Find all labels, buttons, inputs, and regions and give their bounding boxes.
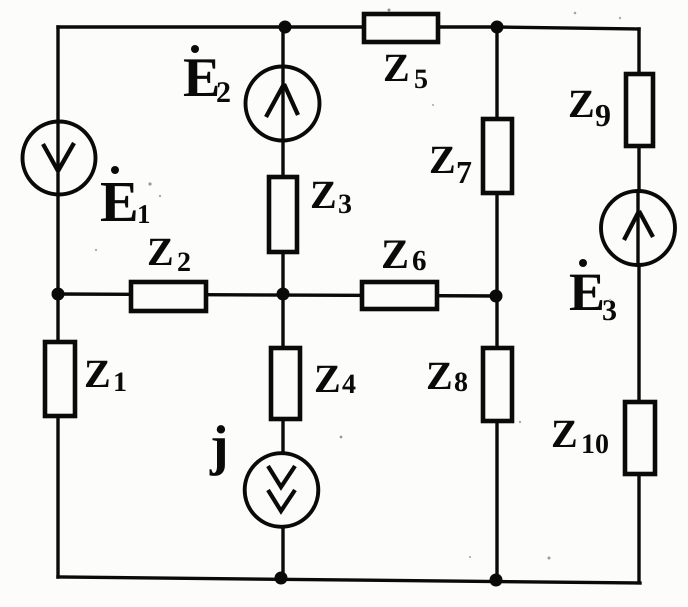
wire middle vertical	[281, 27, 284, 578]
label Z9	[568, 81, 611, 133]
svg-text:Z: Z	[383, 45, 410, 90]
svg-text:2: 2	[216, 76, 231, 109]
svg-text:7: 7	[456, 154, 472, 190]
node top-middle	[279, 21, 292, 34]
label E3	[569, 259, 617, 327]
wire right-middle vertical	[495, 27, 498, 580]
svg-text:1: 1	[113, 367, 127, 398]
node bottom-middle	[275, 572, 288, 585]
svg-text:8: 8	[454, 367, 468, 398]
label Z8	[426, 353, 468, 398]
resistor Z2	[131, 282, 206, 311]
svg-text:Z: Z	[426, 353, 453, 398]
wire left	[56, 27, 59, 577]
svg-text:E: E	[183, 47, 220, 109]
svg-text:Z: Z	[314, 356, 341, 401]
svg-text:j: j	[209, 415, 229, 477]
svg-text:Z: Z	[551, 411, 578, 456]
svg-text:Z: Z	[310, 172, 337, 217]
resistor Z6	[362, 282, 437, 309]
svg-text:E: E	[569, 262, 605, 322]
svg-text:Z: Z	[381, 232, 409, 278]
scan speckles	[95, 9, 621, 560]
svg-text:1: 1	[137, 199, 151, 229]
wire right	[637, 29, 640, 582]
svg-text:4: 4	[342, 369, 356, 400]
svg-text:Z: Z	[568, 81, 595, 126]
label Z6	[381, 232, 427, 278]
wire top	[58, 27, 639, 29]
svg-text:3: 3	[338, 189, 352, 220]
svg-text:Z: Z	[147, 229, 174, 274]
svg-text:Z: Z	[84, 351, 111, 396]
node top-right	[491, 21, 504, 34]
svg-text:9: 9	[595, 97, 611, 133]
label Z4	[314, 356, 356, 401]
label E1	[100, 166, 151, 234]
label E2	[183, 45, 231, 109]
voltage source E3	[601, 190, 675, 266]
node bottom-right	[490, 574, 503, 587]
svg-text:2: 2	[177, 247, 191, 278]
voltage source E2	[246, 65, 320, 141]
voltage source E1	[23, 121, 96, 196]
label Z1	[84, 351, 127, 398]
node right-middle	[490, 290, 503, 303]
current source J	[245, 453, 319, 527]
resistor Z5	[364, 14, 438, 42]
wire middle horizontal	[58, 294, 497, 296]
svg-text:10: 10	[581, 429, 609, 460]
resistor Z1	[45, 342, 75, 416]
resistor Z3	[269, 177, 297, 252]
svg-text:6: 6	[412, 245, 427, 277]
label Z5	[383, 45, 428, 95]
node center	[277, 288, 290, 301]
label Z3	[310, 172, 352, 220]
resistor Z9	[626, 74, 653, 146]
svg-text:5: 5	[414, 64, 428, 95]
label Z2	[147, 229, 191, 278]
node left-middle	[52, 288, 65, 301]
label Z10	[551, 411, 609, 460]
resistor Z8	[483, 348, 512, 421]
svg-text:Z: Z	[429, 137, 456, 182]
wire bottom	[58, 577, 640, 583]
resistor Z10	[625, 402, 655, 474]
svg-text:E: E	[100, 169, 139, 234]
resistor Z4	[271, 348, 300, 419]
label Z7	[429, 137, 472, 190]
resistor Z7	[483, 119, 512, 193]
